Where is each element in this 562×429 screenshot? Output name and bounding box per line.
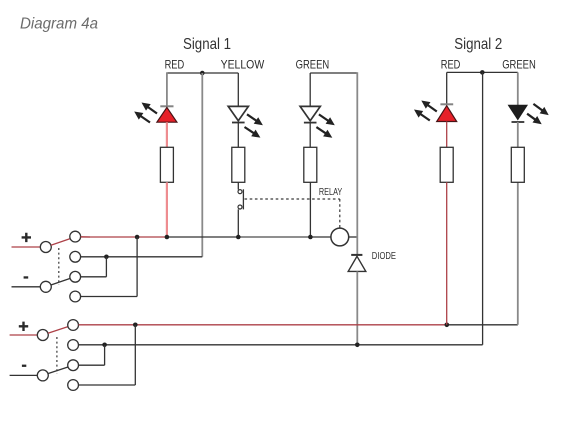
diode D6 cathode bar	[351, 254, 362, 256]
wire bus2 black segment	[447, 324, 518, 326]
wire S1 top bus	[167, 72, 238, 74]
wire S2 red supply	[446, 72, 448, 104]
terminal - SW2	[22, 365, 26, 367]
SW1 pole - contact	[40, 281, 51, 292]
resistor S2 red	[440, 147, 453, 182]
SW1 blade +	[51, 239, 70, 246]
wire S1 red supply	[166, 72, 168, 106]
LED D5 GREEN triangle	[509, 105, 528, 119]
relay coil K1	[331, 228, 349, 246]
wire bus1 red segment	[81, 236, 167, 238]
wire SW1 throw3 riser	[105, 257, 107, 277]
node bus1 green junction	[308, 235, 313, 240]
relay contact blade	[242, 189, 244, 209]
wire SW2 throw4 riser	[134, 325, 136, 385]
LED D1 light arrows	[146, 106, 157, 114]
SW1 pole + contact	[40, 242, 51, 253]
wire S1 green top link	[310, 72, 357, 74]
SW2 throw 2	[68, 340, 79, 351]
LED D3 GREEN triangle	[300, 106, 320, 120]
wire S1 red pink upper	[166, 122, 168, 147]
wire bus2 red	[79, 324, 447, 326]
wire S2 green lower	[517, 122, 519, 325]
wire bus1 to coil	[310, 236, 331, 238]
terminal + SW2	[19, 322, 28, 331]
svg-text:GREEN: GREEN	[296, 58, 330, 72]
wire SW1 throw3 out	[81, 276, 107, 278]
relay contact lower terminal	[238, 205, 242, 209]
node bus2 riser junction	[133, 323, 138, 328]
SW1 mechanical link	[58, 248, 60, 285]
resistor S1 red	[160, 147, 173, 182]
svg-text:RED: RED	[441, 58, 461, 72]
wire SW1 throw4 riser	[136, 237, 138, 297]
svg-text:DIODE: DIODE	[372, 251, 396, 262]
wire SW2 - input	[10, 374, 38, 376]
relay link dashed horizontal	[245, 198, 340, 200]
LED D1 RED cathode bar	[160, 105, 173, 107]
LED D4 RED triangle	[437, 106, 457, 122]
SW2 blade -	[48, 367, 68, 374]
node SW1 t2-t3 junction	[104, 254, 109, 259]
SW2 pole + contact	[37, 330, 48, 341]
wire SW1 + input	[12, 246, 41, 248]
wire SW1 throw4 out	[81, 296, 138, 298]
resistor S2 green	[511, 147, 524, 182]
wire SW2 throw4 out	[79, 384, 136, 386]
node SW2 t2-t3 junction	[102, 343, 107, 348]
LED D5 light arrows	[533, 104, 544, 112]
terminal - SW1	[24, 276, 29, 278]
SW1 throw 3	[70, 271, 81, 282]
terminal + SW1	[22, 233, 31, 242]
LED D4 light arrows	[426, 104, 437, 112]
node bus1 red-led junction	[165, 235, 170, 240]
wire SW1 throw1 out	[81, 236, 90, 238]
SW2 mechanical link	[56, 337, 58, 374]
node bus1 yellow junction	[236, 235, 241, 240]
wire S1 green mid	[309, 123, 311, 148]
wire S1 middle column	[201, 73, 203, 257]
wire bus1 gray segment	[238, 236, 310, 238]
LED D4 RED cathode bar	[440, 103, 453, 105]
wire S1 middle to switch	[106, 256, 202, 258]
svg-text:RED: RED	[165, 58, 185, 72]
wire S1 red pink lower	[166, 182, 168, 237]
wire SW2 throw3 riser	[104, 345, 106, 365]
wire S2 red lower	[446, 182, 448, 324]
wire bus1 black segment	[167, 236, 238, 238]
wire coil right	[349, 236, 358, 238]
SW1 throw 1	[70, 231, 81, 242]
LED D1 RED triangle	[157, 107, 177, 122]
wire S2 green supply	[517, 72, 519, 105]
svg-text:RELAY: RELAY	[319, 187, 343, 198]
wire S2 red mid	[446, 122, 448, 148]
node S1 top junction	[200, 71, 205, 76]
SW1 throw 4	[70, 291, 81, 302]
SW2 throw 3	[68, 360, 79, 371]
diode D6 triangle	[348, 256, 366, 271]
wire S1 yellow supply	[237, 73, 239, 106]
LED D2 YELLOW cathode bar	[232, 122, 245, 124]
wire SW1 - input	[12, 286, 41, 288]
SW2 throw 4	[68, 380, 79, 391]
LED D5 GREEN cathode bar	[512, 121, 525, 123]
LED D2 light arrows	[247, 114, 258, 122]
wire SW2 throw2 out	[79, 344, 483, 346]
resistor S1 green	[304, 147, 317, 182]
node bus2 red-led junction	[445, 323, 450, 328]
svg-text:Signal 1: Signal 1	[183, 36, 231, 53]
SW2 blade +	[48, 327, 68, 334]
svg-text:YELLOW: YELLOW	[221, 58, 265, 72]
wire S1 green supply	[309, 73, 311, 106]
wire S1 yellow mid	[237, 123, 239, 148]
svg-text:Signal 2: Signal 2	[454, 36, 502, 53]
LED D3 GREEN cathode bar	[304, 122, 317, 124]
svg-text:Diagram 4a: Diagram 4a	[20, 16, 98, 33]
wire SW2 throw3 out	[79, 364, 105, 366]
node S2 top junction	[480, 70, 485, 75]
SW2 throw 1	[68, 320, 79, 331]
wire S1 yellow to relay contact	[237, 182, 239, 189]
wire green return lower	[356, 271, 358, 344]
wire SW2 + input	[10, 334, 38, 336]
wire SW1 throw2 out	[81, 256, 107, 258]
wire S1 yellow below contact	[237, 209, 239, 237]
resistor S1 yellow	[232, 147, 245, 182]
SW2 pole - contact	[37, 370, 48, 381]
node diode junction	[355, 343, 360, 348]
LED D2 YELLOW triangle	[228, 106, 248, 120]
node bus1 riser junction	[135, 235, 140, 240]
relay contact upper terminal	[238, 190, 242, 194]
wire green return upper	[356, 72, 358, 255]
SW1 throw 2	[70, 251, 81, 262]
wire S2 top bus	[447, 71, 518, 73]
LED D3 light arrows	[319, 114, 330, 122]
wire S1 green lower	[309, 182, 311, 237]
svg-text:GREEN: GREEN	[502, 58, 536, 72]
relay link dashed vertical	[339, 199, 341, 228]
wire S2 middle column	[482, 72, 484, 344]
SW1 blade -	[51, 278, 70, 285]
